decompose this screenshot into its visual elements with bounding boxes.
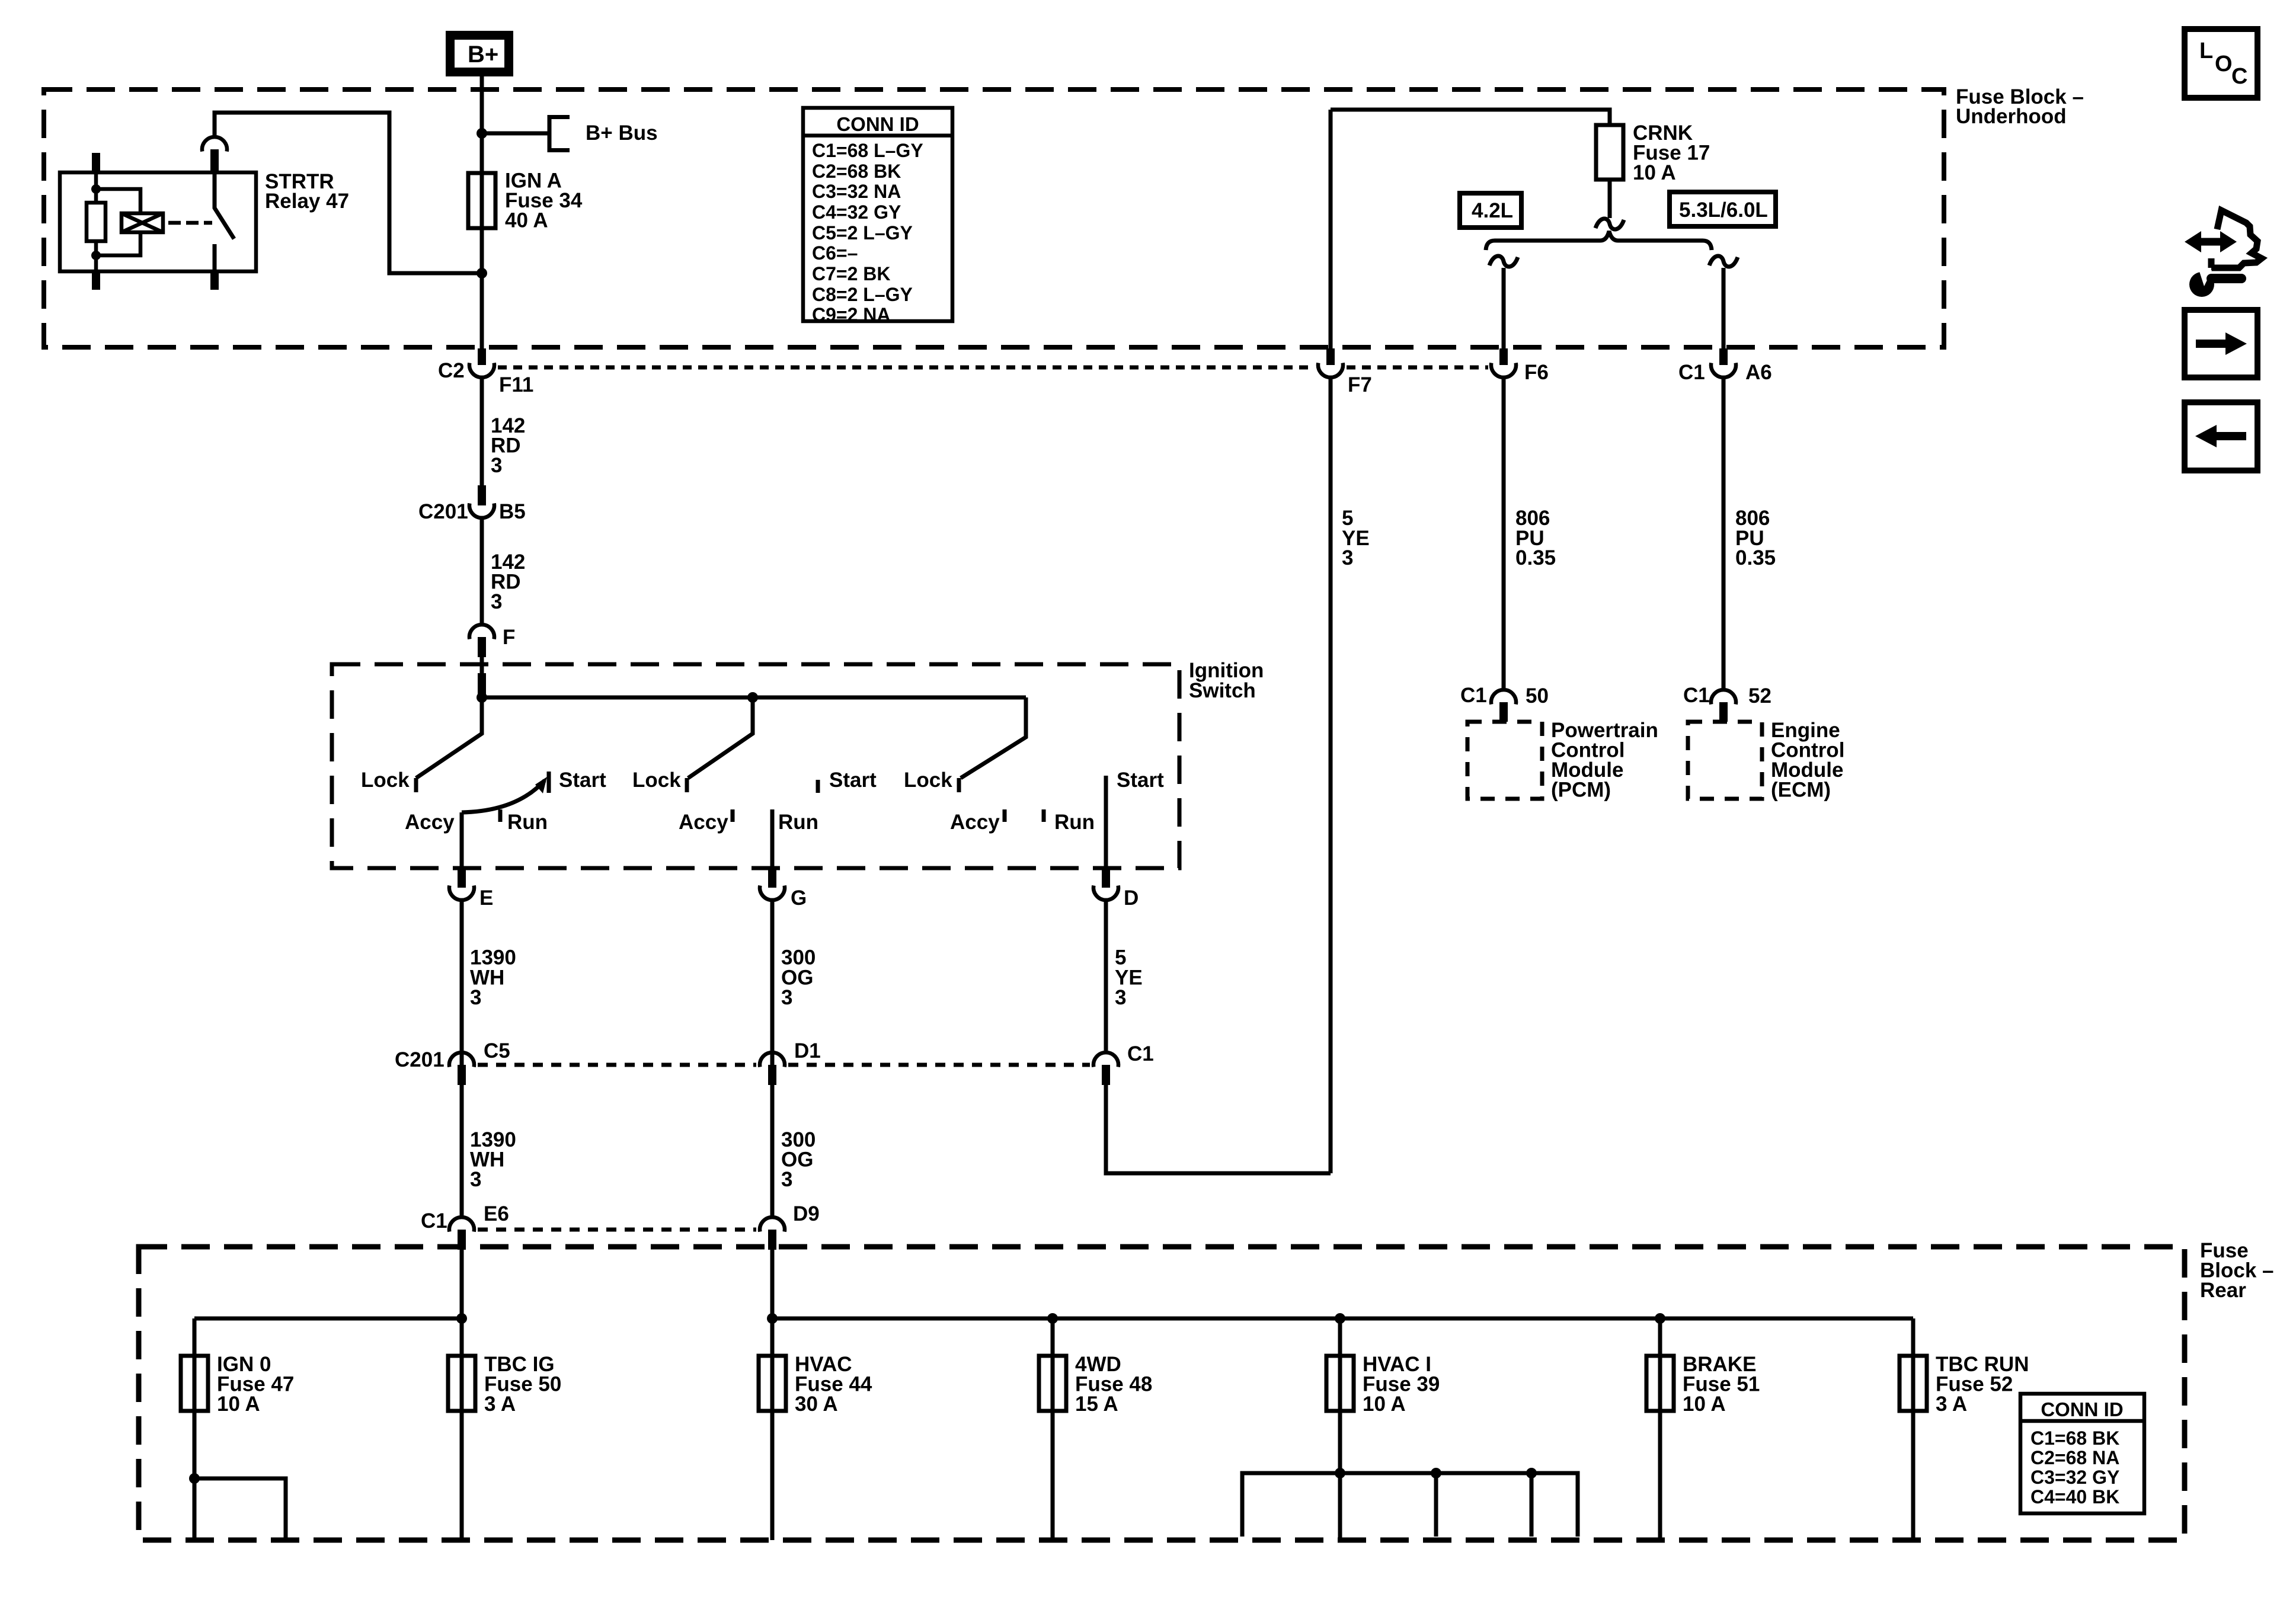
circuit label 300 OG 3 [781,946,816,1010]
CONN ID table underhood [803,108,952,325]
fuse BRAKE Fuse 51 10A [1646,1353,1760,1416]
wafer1 arm to Lock [416,697,482,778]
svg-text:Start: Start [1117,769,1164,792]
wire F7 down [1329,379,1333,1173]
svg-text:CONN ID: CONN ID [836,113,919,135]
svg-text:Accy: Accy [950,811,1000,834]
relay STRTR Relay 47 box [60,172,256,271]
connector C1 ignition [1093,1042,1154,1085]
wafer2 Start contact [816,780,820,793]
wire D1 down [770,1085,775,1215]
wire 4.2L branch [1502,268,1506,350]
svg-text:C1: C1 [1683,684,1710,707]
wire to STRTR relay [215,113,482,273]
Fuse Block - Underhood label [1956,85,2084,128]
break symbol 5.3L branch [1709,256,1738,267]
svg-text:(PCM): (PCM) [1551,779,1611,802]
power terminal B+ [446,31,513,76]
TBC RUN drop wire [1911,1318,1916,1540]
svg-text:Run: Run [778,811,818,834]
vehicle service icon [2185,210,2262,297]
STRTR Relay 47 label [265,170,349,213]
connector G [760,868,807,910]
wire E6 into rear block [460,1250,464,1318]
svg-text:Start: Start [829,769,877,792]
CRNK feed wire [1331,110,1610,125]
svg-text:3: 3 [1115,986,1126,1009]
C201 row dashed line [478,1063,756,1067]
fuse IGN A Fuse 34 40A [468,169,583,232]
svg-text:C: C [2231,64,2247,89]
comb bus [1242,1473,1578,1537]
switch feed bus [482,696,1026,700]
wire A6 down [1722,379,1726,688]
svg-text:D1: D1 [794,1039,821,1062]
fuse HVAC I Fuse 39 10A [1326,1353,1440,1416]
wire C5 down [460,1085,464,1215]
wire D9 into rear block [770,1250,775,1318]
svg-text:15 A: 15 A [1075,1393,1118,1416]
svg-text:C6=–: C6=– [812,242,858,264]
svg-text:Lock: Lock [361,769,410,792]
wafer1 wiper curve [462,777,547,812]
circuit label 806 PU 0.35 [1735,507,1776,569]
svg-text:50: 50 [1526,684,1549,708]
break symbol CRNK [1595,219,1624,229]
svg-text:3 A: 3 A [484,1393,516,1416]
4.2L box [1460,193,1521,228]
junction dot coil top [91,184,101,194]
svg-text:52: 52 [1748,684,1771,708]
svg-text:C2=68 NA: C2=68 NA [2030,1447,2119,1468]
svg-text:C7=2 BK: C7=2 BK [812,263,891,284]
connector C201 B5 [418,485,526,523]
svg-text:C4=40 BK: C4=40 BK [2030,1486,2119,1507]
wire B5 to F [480,520,484,623]
connector C1 50 [1460,684,1549,722]
circuit label 142 RD 3 [491,550,525,613]
rear bus right segment [772,1317,1913,1321]
junction dot BRAKE [1655,1313,1665,1324]
ECM label [1771,719,1844,802]
svg-text:Lock: Lock [632,769,681,792]
connector C1 52 [1683,684,1771,722]
svg-text:C201: C201 [418,500,468,523]
break symbol 4.2L branch [1489,256,1518,267]
next page arrow box [2185,310,2257,377]
junction dot comb HVAC I [1335,1468,1345,1478]
junction dot HVAC I [1335,1313,1345,1324]
relay coil wire [94,173,98,271]
relay actuator dashed link [168,221,212,225]
svg-text:Relay 47: Relay 47 [265,190,349,213]
circuit label 1390 WH 3 [470,1128,516,1191]
wafer1 Start contact [547,772,551,793]
wafer1 Run contact [498,809,503,822]
B+ Bus tap symbol [482,115,570,152]
IGN 0 drop wire [193,1318,197,1540]
junction dot B+ bus tap [477,128,487,139]
svg-text:Accy: Accy [679,811,728,834]
wire below CRNK fuse [1608,180,1612,218]
svg-text:F11: F11 [499,373,533,396]
svg-text:C2: C2 [438,359,465,382]
svg-text:O: O [2215,52,2233,76]
svg-text:C1: C1 [421,1209,447,1233]
ECM dashed box [1688,722,1762,799]
Ignition Switch dashed box [332,664,1179,868]
connector D1 [760,1039,821,1085]
junction dot IGN 0 branch [189,1473,200,1484]
svg-text:3: 3 [470,986,481,1009]
fuse IGN 0 Fuse 47 10A [181,1353,294,1416]
wafer2 Accy contact [731,809,735,822]
connector C1 A6 [1678,348,1772,384]
svg-text:Accy: Accy [405,811,455,834]
wire F6 down [1502,379,1506,688]
svg-text:C1: C1 [1678,361,1705,384]
svg-text:10 A: 10 A [217,1393,260,1416]
wire F7 drop [1329,110,1333,350]
svg-text:(ECM): (ECM) [1771,779,1831,802]
svg-text:Run: Run [1054,811,1095,834]
wire D to F7 riser [1106,1085,1331,1173]
circuit label 5 YE 3 [1342,507,1370,569]
fuse 4WD Fuse 48 15A [1039,1353,1152,1416]
svg-text:C3=32 NA: C3=32 NA [812,181,901,202]
svg-text:C2=68 BK: C2=68 BK [812,161,901,182]
svg-text:L: L [2199,39,2213,63]
svg-text:0.35: 0.35 [1735,546,1776,569]
HVAC I drop wire [1338,1318,1342,1540]
svg-text:10 A: 10 A [1363,1393,1406,1416]
svg-text:B+: B+ [468,41,498,68]
wafer2 output wire [770,809,775,868]
wafer3 arm to Lock [961,697,1026,778]
C1 row dashed line [478,1228,756,1232]
CONN ID table rear [2020,1394,2144,1513]
BRAKE drop wire [1658,1318,1662,1540]
svg-text:F6: F6 [1524,361,1549,384]
connector D9 [760,1202,820,1250]
circuit label 142 RD 3 [491,414,525,477]
svg-text:F7: F7 [1348,373,1372,396]
svg-text:Switch: Switch [1189,679,1256,702]
svg-text:40 A: 40 A [505,209,548,232]
connector at relay pin [202,137,227,173]
relay coil resistor [87,203,105,241]
rear bus left segment [194,1317,462,1321]
svg-text:3 A: 3 A [1936,1393,1967,1416]
svg-text:A6: A6 [1745,361,1772,384]
svg-text:C8=2 L–GY: C8=2 L–GY [812,284,913,305]
junction dot relay feed [477,268,487,279]
svg-text:G: G [791,886,807,910]
svg-text:E: E [479,886,493,910]
junction dot HVAC [767,1313,778,1324]
wafer3 output wire D [1104,776,1108,868]
svg-text:3: 3 [491,454,502,477]
svg-text:30 A: 30 A [795,1393,838,1416]
fuse TBC RUN Fuse 52 3A [1900,1353,2029,1416]
relay coil X box [121,213,163,232]
svg-text:CONN ID: CONN ID [2041,1398,2123,1420]
connector C1 E6 [421,1202,509,1250]
svg-text:Rear: Rear [2200,1279,2246,1302]
wafer3 Lock contact [957,778,961,792]
circuit label 806 PU 0.35 [1515,507,1556,569]
svg-text:10 A: 10 A [1633,161,1676,184]
connector F6 [1491,348,1549,384]
connector E [449,868,493,910]
wire B+ main feed [480,76,484,350]
svg-text:4.2L: 4.2L [1472,199,1513,222]
Fuse Block - Underhood dashed box [44,89,1944,347]
wire E down [460,902,464,1215]
svg-text:Underhood: Underhood [1956,105,2067,128]
PCM label [1551,719,1658,802]
fuse TBC IG Fuse 50 3A [448,1353,561,1416]
svg-text:Start: Start [559,769,606,792]
wire 5.3L branch [1722,268,1726,350]
junction dot wafer2 [747,692,758,703]
svg-text:B+ Bus: B+ Bus [586,121,658,145]
connector C201 C5 [395,1039,510,1085]
svg-text:E6: E6 [484,1202,509,1225]
svg-text:C1: C1 [1127,1042,1154,1065]
svg-text:D: D [1124,886,1139,910]
relay coil branch wire [96,189,140,255]
previous page arrow box [2185,402,2257,470]
LOC locator box [2185,29,2257,98]
circuit label 1390 WH 3 [470,946,516,1010]
wafer1 output wire [460,812,464,868]
wire D down [1104,902,1108,1051]
wire into ignition switch [480,657,484,673]
svg-text:C1=68 BK: C1=68 BK [2030,1427,2119,1449]
junction dot comb mid [1431,1468,1441,1478]
svg-text:3: 3 [1342,546,1353,569]
dotted connector line F11-F6 [498,366,1315,370]
svg-text:C1: C1 [1460,684,1487,707]
svg-text:Lock: Lock [904,769,952,792]
svg-text:F: F [503,626,515,649]
connector F7 [1318,348,1372,396]
PCM dashed box [1467,722,1542,799]
connector F [469,625,515,657]
junction dot wafer1 [477,692,487,703]
engine split brace [1486,231,1712,250]
svg-text:3: 3 [781,986,792,1009]
TBC IG drop wire [460,1318,464,1540]
Fuse Block - Rear dashed box [139,1247,2185,1540]
svg-text:C4=32 GY: C4=32 GY [812,201,901,223]
svg-text:3: 3 [781,1168,792,1191]
Fuse Block - Rear label [2200,1239,2274,1302]
svg-text:C9=2 NA: C9=2 NA [812,304,891,325]
svg-text:D9: D9 [793,1202,820,1225]
svg-text:10 A: 10 A [1683,1393,1726,1416]
HVAC drop wire [770,1318,775,1540]
fuse CRNK Fuse 17 10A [1596,121,1710,184]
svg-text:C5: C5 [484,1039,510,1062]
fuse HVAC Fuse 44 30A [759,1353,872,1416]
svg-text:Run: Run [507,811,548,834]
wafer2 Lock contact [685,778,689,792]
wire G down [770,902,775,1215]
svg-text:5.3L/6.0L: 5.3L/6.0L [1679,199,1768,222]
junction dot comb right [1526,1468,1537,1478]
relay switch arm [215,173,234,271]
circuit label 5 YE 3 [1115,946,1143,1010]
svg-text:0.35: 0.35 [1515,546,1556,569]
wafer2 arm to Lock [688,697,753,778]
svg-text:C5=2 L–GY: C5=2 L–GY [812,222,913,244]
wafer1 Lock contact [414,778,418,792]
4WD drop wire [1051,1318,1055,1540]
svg-text:C201: C201 [395,1048,445,1071]
junction dot coil bottom [91,251,101,260]
connector D [1093,868,1139,910]
circuit label 300 OG 3 [781,1128,816,1191]
connector C2 F11 [438,348,533,396]
junction dot TBC IG [456,1313,467,1324]
IGN 0 branch wire [194,1478,286,1540]
5.3L/6.0L box [1670,192,1776,226]
junction dot 4WD [1047,1313,1058,1324]
svg-text:C1=68 L–GY: C1=68 L–GY [812,140,923,161]
wafer3 Accy contact [1003,809,1007,822]
svg-text:B5: B5 [499,500,526,523]
svg-text:3: 3 [470,1168,481,1191]
svg-text:3: 3 [491,590,502,613]
wire F11 to B5 [480,379,484,485]
wafer3 Run contact [1042,809,1046,822]
Ignition Switch label [1189,659,1264,702]
svg-text:C3=32 GY: C3=32 GY [2030,1467,2119,1488]
relay pin stubs [92,153,100,173]
